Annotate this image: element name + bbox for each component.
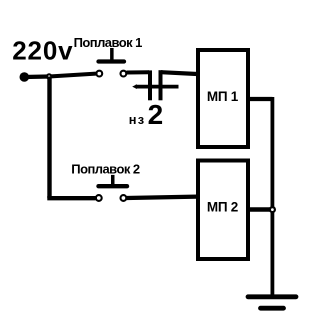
- wire: vertical drop from junction: [47, 77, 51, 199]
- contactor coil MP2 box: [198, 161, 248, 260]
- float switch SQ1 left contact terminal: [96, 71, 102, 77]
- float switch SQ1 actuator bar: [99, 59, 125, 63]
- svg-text:МП 2: МП 2: [207, 200, 238, 215]
- wire: junction to float switch 1 left terminal: [49, 74, 96, 77]
- contact 2 crossing line with arrow: [136, 85, 179, 89]
- wire: switch 2 to MP2 coil: [127, 197, 198, 198]
- svg-text:220v: 220v: [12, 35, 73, 65]
- svg-text:Поплавок 2: Поплавок 2: [71, 162, 140, 177]
- wire: supply dot to junction: [24, 74, 49, 79]
- wire: contact plates to MP1 coil: [161, 72, 197, 74]
- svg-text:нз: нз: [129, 112, 146, 127]
- float switch SQ2 right contact terminal: [121, 195, 127, 201]
- float switch SQ2 actuator bar: [99, 184, 128, 188]
- ground bar 2: [261, 306, 284, 311]
- contact 2 right plate: [159, 70, 163, 100]
- float switch SQ2 left contact terminal: [96, 195, 102, 201]
- float switch SQ2 actuator stem: [111, 175, 115, 187]
- wire: horizontal to float switch 2 left terminal: [47, 196, 95, 200]
- ground bar 1: [248, 294, 296, 299]
- contactor coil MP1 box: [198, 50, 248, 147]
- float switch SQ1 actuator stem: [110, 48, 114, 61]
- node: junction circle at 220v: [47, 74, 51, 78]
- node: junction circle on return bus: [270, 207, 275, 212]
- wire: MP1 to return bus: [250, 97, 272, 101]
- wire: vertical return bus: [270, 97, 274, 295]
- node: supply terminal dot: [20, 72, 30, 82]
- wire: switch 1 to contact plates: [127, 70, 150, 74]
- svg-text:2: 2: [148, 99, 164, 130]
- svg-text:Поплавок 1: Поплавок 1: [74, 35, 143, 50]
- svg-text:МП 1: МП 1: [207, 89, 239, 104]
- wire: MP2 to return bus: [250, 207, 272, 211]
- contact 2 left plate: [148, 70, 152, 100]
- float switch SQ1 right contact terminal: [121, 71, 127, 77]
